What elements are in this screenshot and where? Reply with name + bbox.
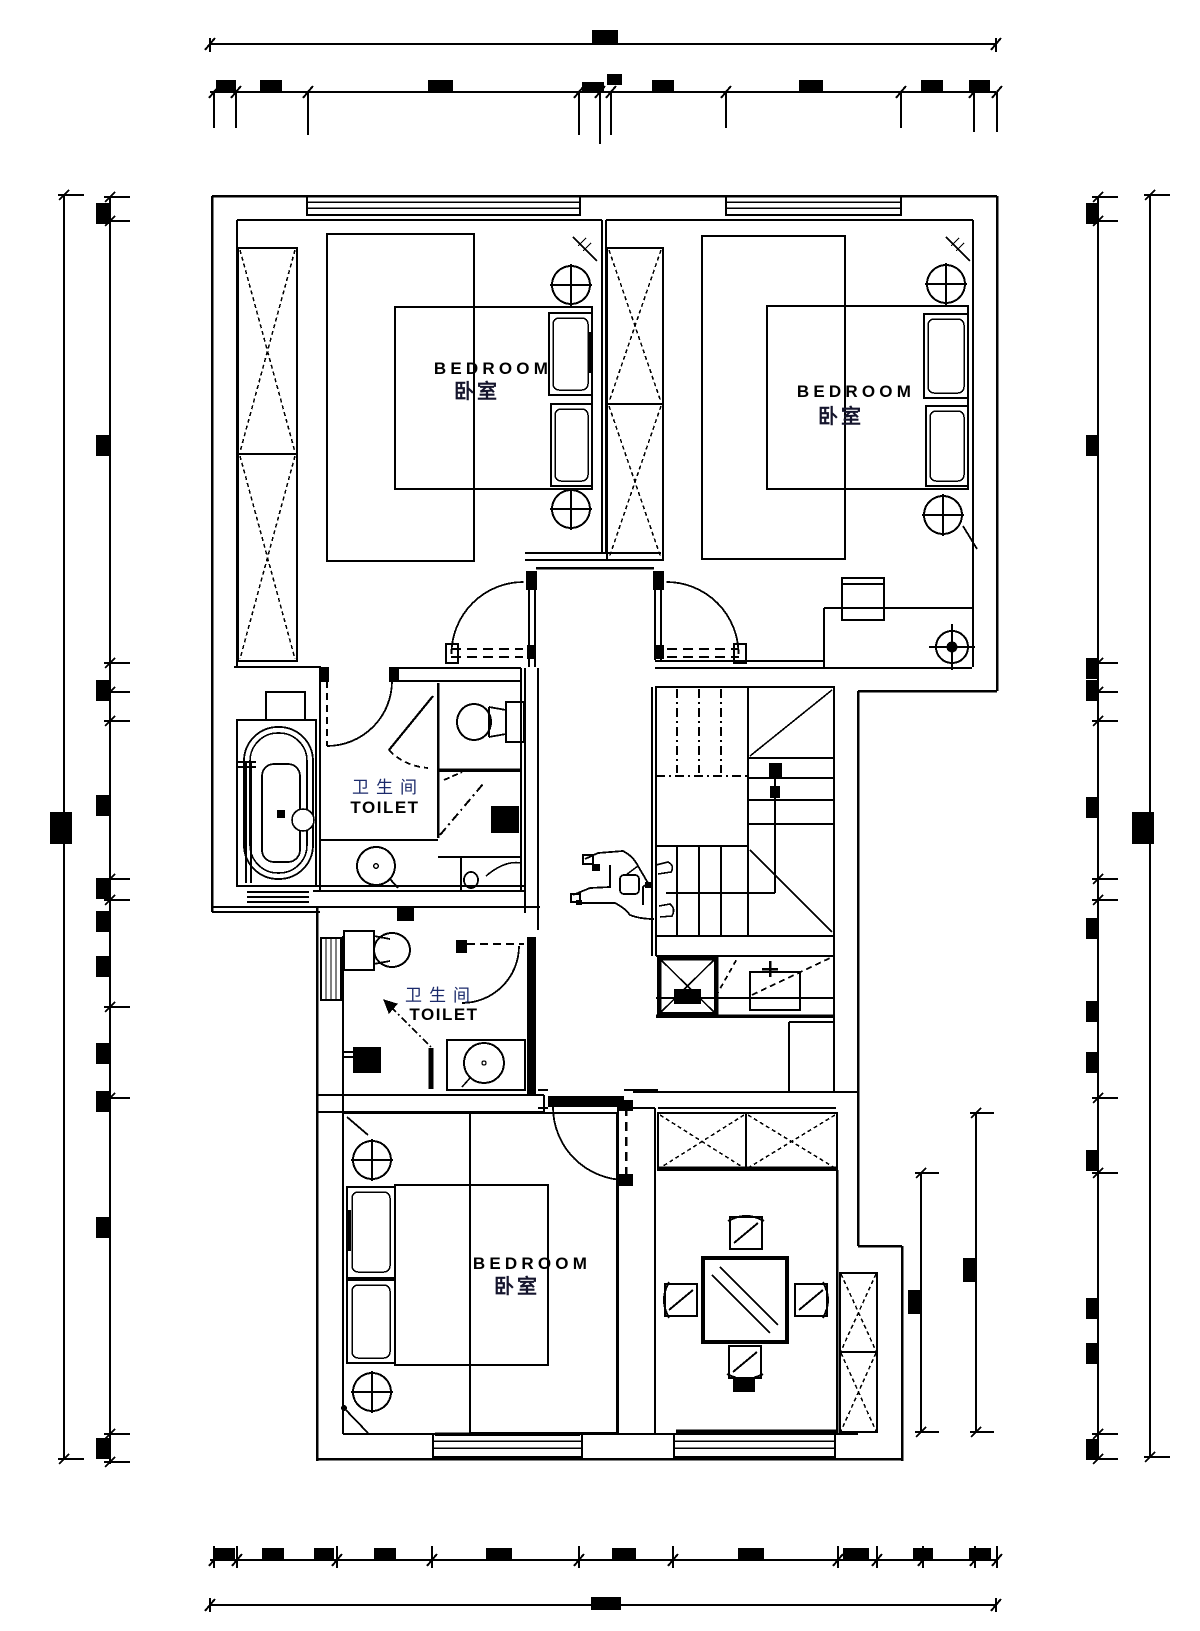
bedroom3 door	[548, 1096, 633, 1186]
bedroom2 ledge	[824, 608, 972, 668]
landing bottom wall	[212, 906, 540, 908]
door bedroom1	[446, 582, 524, 663]
toilet WC2	[344, 931, 410, 970]
hall top wall	[525, 553, 661, 568]
cabinet under stairs mid	[716, 957, 738, 996]
inner wall top	[237, 219, 973, 221]
stair arrow	[769, 763, 782, 893]
dining top wall	[633, 1092, 858, 1108]
inner wall bottom	[343, 1433, 858, 1435]
svg-text:卫生间: 卫生间	[352, 778, 424, 797]
toilet1 bottom wall	[313, 886, 525, 891]
closet bedroom1	[238, 248, 297, 661]
stair upper-right treads	[748, 758, 834, 824]
bed3	[347, 1185, 548, 1365]
label toilet2	[405, 986, 479, 1024]
label bedroom3	[473, 1254, 591, 1298]
rug bedroom1	[327, 234, 474, 561]
dimension line left segmented	[96, 192, 130, 1467]
hall right wall	[653, 571, 664, 660]
toilet1 partition diagonal	[389, 696, 462, 780]
rug bedroom3	[470, 1113, 617, 1433]
dimension line right-bottom inner	[908, 1168, 939, 1437]
outer wall step right	[858, 691, 997, 1461]
inner wall right upper	[972, 220, 974, 667]
dimension line right overall	[1132, 190, 1170, 1462]
label bedroom2	[797, 382, 915, 428]
window W1 top	[307, 196, 580, 220]
toilet WC1	[457, 702, 524, 742]
cabinet under stairs left	[656, 956, 835, 1016]
corner mark bedroom3 bottom	[342, 1406, 369, 1434]
svg-text:卫生间: 卫生间	[405, 986, 477, 1005]
stair upper flight treads	[656, 689, 748, 776]
person figure	[571, 851, 674, 919]
outer wall right upper	[996, 196, 999, 691]
dimension line right segmented	[1086, 192, 1118, 1464]
rug bedroom2	[702, 236, 845, 559]
svg-text:卧室: 卧室	[454, 379, 500, 403]
closet dining right	[840, 1273, 877, 1432]
bathtub steps	[247, 892, 309, 902]
window W4 bottom	[674, 1431, 836, 1457]
lamp bedroom3 top	[351, 1139, 393, 1181]
toilet1 sink	[357, 847, 398, 888]
bedroom3 top wall	[343, 1112, 618, 1114]
toilet2 door	[456, 940, 524, 1003]
cabinet under stairs right	[750, 958, 830, 1010]
corner mark bedroom3 top	[347, 1117, 368, 1135]
dining right wall	[836, 1170, 839, 1434]
bathtub	[237, 720, 316, 886]
toilet2 shower door	[384, 1000, 431, 1089]
wall between bedrooms	[602, 220, 606, 553]
corner mark bedroom1	[573, 237, 597, 261]
toilet1 inner wall	[437, 683, 440, 838]
lamp bedroom1 bottom	[550, 488, 592, 530]
hall bottom wall	[538, 1090, 658, 1108]
label bedroom1	[434, 359, 552, 403]
toilet2 washer	[343, 1047, 381, 1073]
lamp bedroom3 bottom	[351, 1371, 393, 1413]
stair right outer wall	[789, 936, 834, 1092]
toilet2 bottom wall	[317, 1095, 544, 1112]
chair left	[664, 1282, 697, 1318]
svg-text:TOILET: TOILET	[350, 798, 419, 817]
dimension line top overall	[205, 30, 1001, 52]
toilet1 floor drain	[491, 806, 519, 833]
bedroom2 bottom wall	[655, 661, 972, 668]
chair top	[728, 1216, 764, 1249]
label toilet1	[350, 778, 424, 817]
svg-text:BEDROOM: BEDROOM	[473, 1254, 591, 1273]
nightstand bedroom2	[842, 578, 884, 620]
svg-text:BEDROOM: BEDROOM	[434, 359, 552, 378]
bed2	[767, 306, 968, 489]
outer wall alcove bottom	[212, 907, 320, 912]
outer wall left lower	[316, 907, 319, 1461]
lamp bedroom2 top	[925, 263, 967, 305]
outer wall left upper	[211, 196, 214, 912]
lamp bedroom1 top	[550, 264, 592, 306]
lamp bedroom2 corner	[929, 624, 975, 670]
toilet2 sink	[447, 1040, 525, 1090]
outer wall top	[212, 195, 997, 198]
toilet2 radiator	[321, 938, 341, 1000]
door bedroom2	[667, 582, 747, 663]
stair break line upper	[750, 690, 832, 756]
dining left wall	[654, 1108, 656, 1434]
alcove top wall	[234, 666, 321, 668]
bed1	[395, 307, 592, 489]
toilet1 top wall	[319, 668, 521, 682]
dimension line bottom segmented	[209, 1546, 1002, 1568]
lamp bedroom2 bottom	[922, 494, 964, 536]
dimension line left overall	[50, 190, 84, 1464]
toilet1 counter	[321, 840, 521, 891]
toilet2 top wall hinge block	[397, 908, 414, 921]
svg-text:卧室: 卧室	[818, 404, 864, 428]
toilet1 basin	[464, 863, 521, 888]
svg-text:卧室: 卧室	[494, 1274, 540, 1298]
chair right	[795, 1282, 828, 1318]
landing left wall	[537, 668, 539, 930]
outer wall bottom	[317, 1458, 902, 1461]
toilet2 right wall	[527, 937, 536, 1095]
closet dining top	[658, 1113, 837, 1170]
dimension line bottom overall	[205, 1597, 1001, 1612]
stair break line lower	[750, 850, 832, 932]
toilet1 shower door	[440, 784, 483, 835]
chair bottom	[727, 1346, 763, 1392]
dimension line top segmented	[209, 74, 1002, 144]
inner wall left upper	[236, 220, 238, 667]
dining table	[703, 1258, 787, 1342]
inner wall left lower	[342, 936, 344, 1434]
window W3 bottom	[433, 1434, 582, 1457]
bedroom3 right wall	[617, 1106, 619, 1434]
toilet1 niche bottom wall	[438, 768, 521, 772]
toilet1 door	[327, 681, 392, 746]
stair lower flight treads	[656, 846, 775, 936]
stairwell box	[652, 687, 835, 956]
closet bedroom2	[607, 248, 663, 560]
bathtub shelf	[266, 692, 305, 720]
svg-text:TOILET: TOILET	[409, 1005, 478, 1024]
toilet1 right wall	[521, 668, 525, 913]
corner mark bedroom2 bottom	[963, 526, 977, 549]
svg-text:BEDROOM: BEDROOM	[797, 382, 915, 401]
toilet1 left wall	[319, 668, 321, 891]
corner mark bedroom2 top	[946, 237, 970, 261]
hall left wall	[526, 571, 537, 667]
dimension line right-bottom outer	[963, 1108, 994, 1437]
window W2 top	[726, 196, 901, 220]
